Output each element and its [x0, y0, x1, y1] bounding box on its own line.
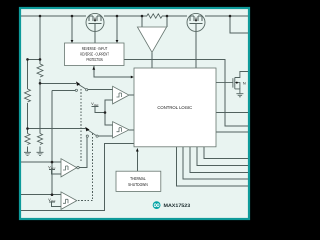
- transistor N (open drain FET right): [216, 72, 248, 94]
- wire staircase 1: [177, 147, 249, 186]
- wire reverse box to control logic: [94, 66, 131, 78]
- resistor R1 (upper right column): [37, 64, 43, 77]
- svg-text:THERMAL: THERMAL: [130, 176, 146, 181]
- wire top bus: [21, 15, 248, 17]
- resistor R3 (left column lower): [25, 134, 30, 145]
- junction on top bus at right arrow: [116, 15, 119, 18]
- wire control box right pin 2: [216, 131, 248, 133]
- svg-text:MAX17523: MAX17523: [164, 203, 191, 209]
- wire comp D plus from left edge: [21, 194, 61, 196]
- mosfet Q2 (circle, top right): [187, 13, 205, 31]
- arrow thermal to control logic: [136, 148, 139, 151]
- wire divider right column x=40: [39, 16, 41, 152]
- node vref mid: [104, 111, 107, 114]
- resistor Rsense (top): [147, 14, 162, 18]
- wire reverse box right to edge pin: [124, 60, 248, 127]
- switch S2: [85, 127, 98, 137]
- Vref label mid (feeds comp1/comp2 node): [91, 102, 105, 112]
- box reverse input protection: [65, 43, 125, 66]
- wire branch y=59.4: [28, 58, 41, 60]
- junction comp C input: [51, 161, 54, 164]
- arrow up into reverse box bottom: [92, 66, 95, 70]
- junction on top bus at left arrow: [71, 15, 74, 18]
- wire ground bus bottom: [21, 144, 134, 211]
- dashed control line comp D output to switch2: [78, 134, 93, 201]
- Vref label comp D: [48, 198, 61, 207]
- wire staircase 5: [204, 147, 248, 159]
- svg-text:N: N: [243, 81, 246, 85]
- wire comp2 minus input: [98, 135, 112, 137]
- wire control box right pin 1: [216, 111, 248, 113]
- arrow into control logic left: [131, 76, 134, 79]
- arrow into reverse box left: [71, 40, 74, 43]
- comparator U5 (bottom left lower): [61, 192, 77, 210]
- arrow into reverse box right: [116, 40, 119, 43]
- resistor R2 (left column): [25, 89, 31, 102]
- wire sense amp inputs: [142, 16, 167, 27]
- junction tap2: [26, 127, 29, 130]
- comparator U4 (bottom left upper): [61, 159, 79, 177]
- mosfet Q1 (circle, top left): [86, 13, 104, 31]
- wire comp1 output: [129, 94, 134, 96]
- wire mosfet Q2 gate: [195, 32, 197, 69]
- wire comp1 minus loop to comp2 plus: [105, 100, 113, 125]
- junction divider branch left: [26, 58, 29, 61]
- svg-text:REVERSE - INPUT: REVERSE - INPUT: [82, 46, 108, 51]
- svg-text:SHUTDOWN: SHUTDOWN: [128, 182, 148, 187]
- wire thermal shutdown to control logic: [136, 149, 138, 172]
- junction tap1: [39, 82, 42, 85]
- wire comp C output to switch2 throw: [79, 137, 87, 167]
- junction on top bus at divider: [39, 15, 42, 18]
- svg-text:CONTROL LOGIC: CONTROL LOGIC: [157, 105, 192, 110]
- wire comp2 output: [129, 129, 134, 131]
- comparator U3 (middle lower): [113, 122, 129, 138]
- wire amp apex to control box: [151, 52, 153, 68]
- box thermal shutdown: [116, 171, 161, 191]
- op-amp U1 (sense amp, triangle down): [137, 27, 166, 52]
- wire out stub right: [230, 16, 248, 33]
- wire divider left column x=27.5: [27, 59, 29, 152]
- junction at sense resistor right: [166, 15, 169, 18]
- resistor R4 (right column lower): [37, 134, 42, 145]
- wire staircase 3: [190, 147, 248, 173]
- wire switch1 left throw: [52, 89, 75, 91]
- Vref label comp C: [48, 166, 61, 175]
- ground (left divider 1): [24, 152, 31, 155]
- wire staircase 4: [197, 147, 248, 166]
- ground (right divider 2): [37, 152, 44, 155]
- ground (N FET source): [236, 94, 243, 97]
- logo maxim: [153, 201, 191, 209]
- wire staircase 2: [183, 147, 248, 179]
- switch S1: [75, 81, 87, 91]
- box control logic: [134, 68, 216, 147]
- wire comp1 plus input: [88, 89, 113, 91]
- junction at out stub: [229, 15, 232, 18]
- wire mosfet Q1 gate: [94, 32, 96, 44]
- wire comp C plus from left edge: [21, 161, 61, 163]
- comparator U2 (middle upper): [113, 86, 129, 104]
- junction at sense resistor left: [141, 15, 144, 18]
- junction comp D input: [51, 193, 54, 196]
- svg-text:PROTECTION: PROTECTION: [86, 57, 103, 62]
- wire vertical x=51.5: [51, 90, 53, 194]
- dashed control line from switch1: [80, 89, 82, 161]
- junction divider branch right: [39, 58, 42, 61]
- wire tap2 to switch2: [28, 128, 86, 130]
- wire reverse box arrows from bus: [72, 16, 117, 41]
- svg-text:REVERSE - CURRENT: REVERSE - CURRENT: [80, 51, 109, 56]
- wire tap1 to switch1: [40, 82, 76, 84]
